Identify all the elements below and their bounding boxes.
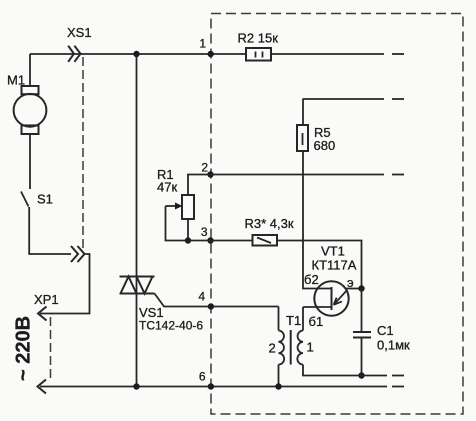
svg-text:47к: 47к	[157, 180, 177, 195]
svg-text:T1: T1	[286, 313, 301, 328]
svg-text:0,1мк: 0,1мк	[377, 338, 410, 353]
svg-text:S1: S1	[37, 192, 53, 207]
svg-text:VT1: VT1	[321, 244, 345, 259]
svg-text:6: 6	[199, 370, 206, 384]
svg-text:C1: C1	[377, 323, 394, 338]
svg-text:2: 2	[269, 341, 276, 356]
svg-text:R2 15к: R2 15к	[238, 31, 279, 46]
svg-text:4: 4	[198, 290, 205, 304]
svg-text:б1: б1	[309, 314, 324, 329]
svg-text:XS1: XS1	[67, 25, 92, 40]
svg-text:б2: б2	[304, 272, 319, 287]
svg-text:КТ117А: КТ117А	[312, 258, 357, 273]
svg-text:680: 680	[314, 138, 336, 153]
svg-text:3: 3	[201, 225, 208, 239]
svg-text:2: 2	[201, 161, 208, 175]
svg-text:1: 1	[199, 37, 206, 51]
svg-text:R3* 4,3к: R3* 4,3к	[245, 216, 294, 231]
svg-text:э: э	[347, 275, 354, 290]
svg-text:1: 1	[307, 340, 314, 355]
svg-text:M1: M1	[7, 73, 25, 88]
svg-text:~ 220B: ~ 220B	[13, 316, 35, 381]
svg-text:XP1: XP1	[34, 292, 59, 307]
svg-text:ТС142-40-6: ТС142-40-6	[139, 319, 203, 333]
